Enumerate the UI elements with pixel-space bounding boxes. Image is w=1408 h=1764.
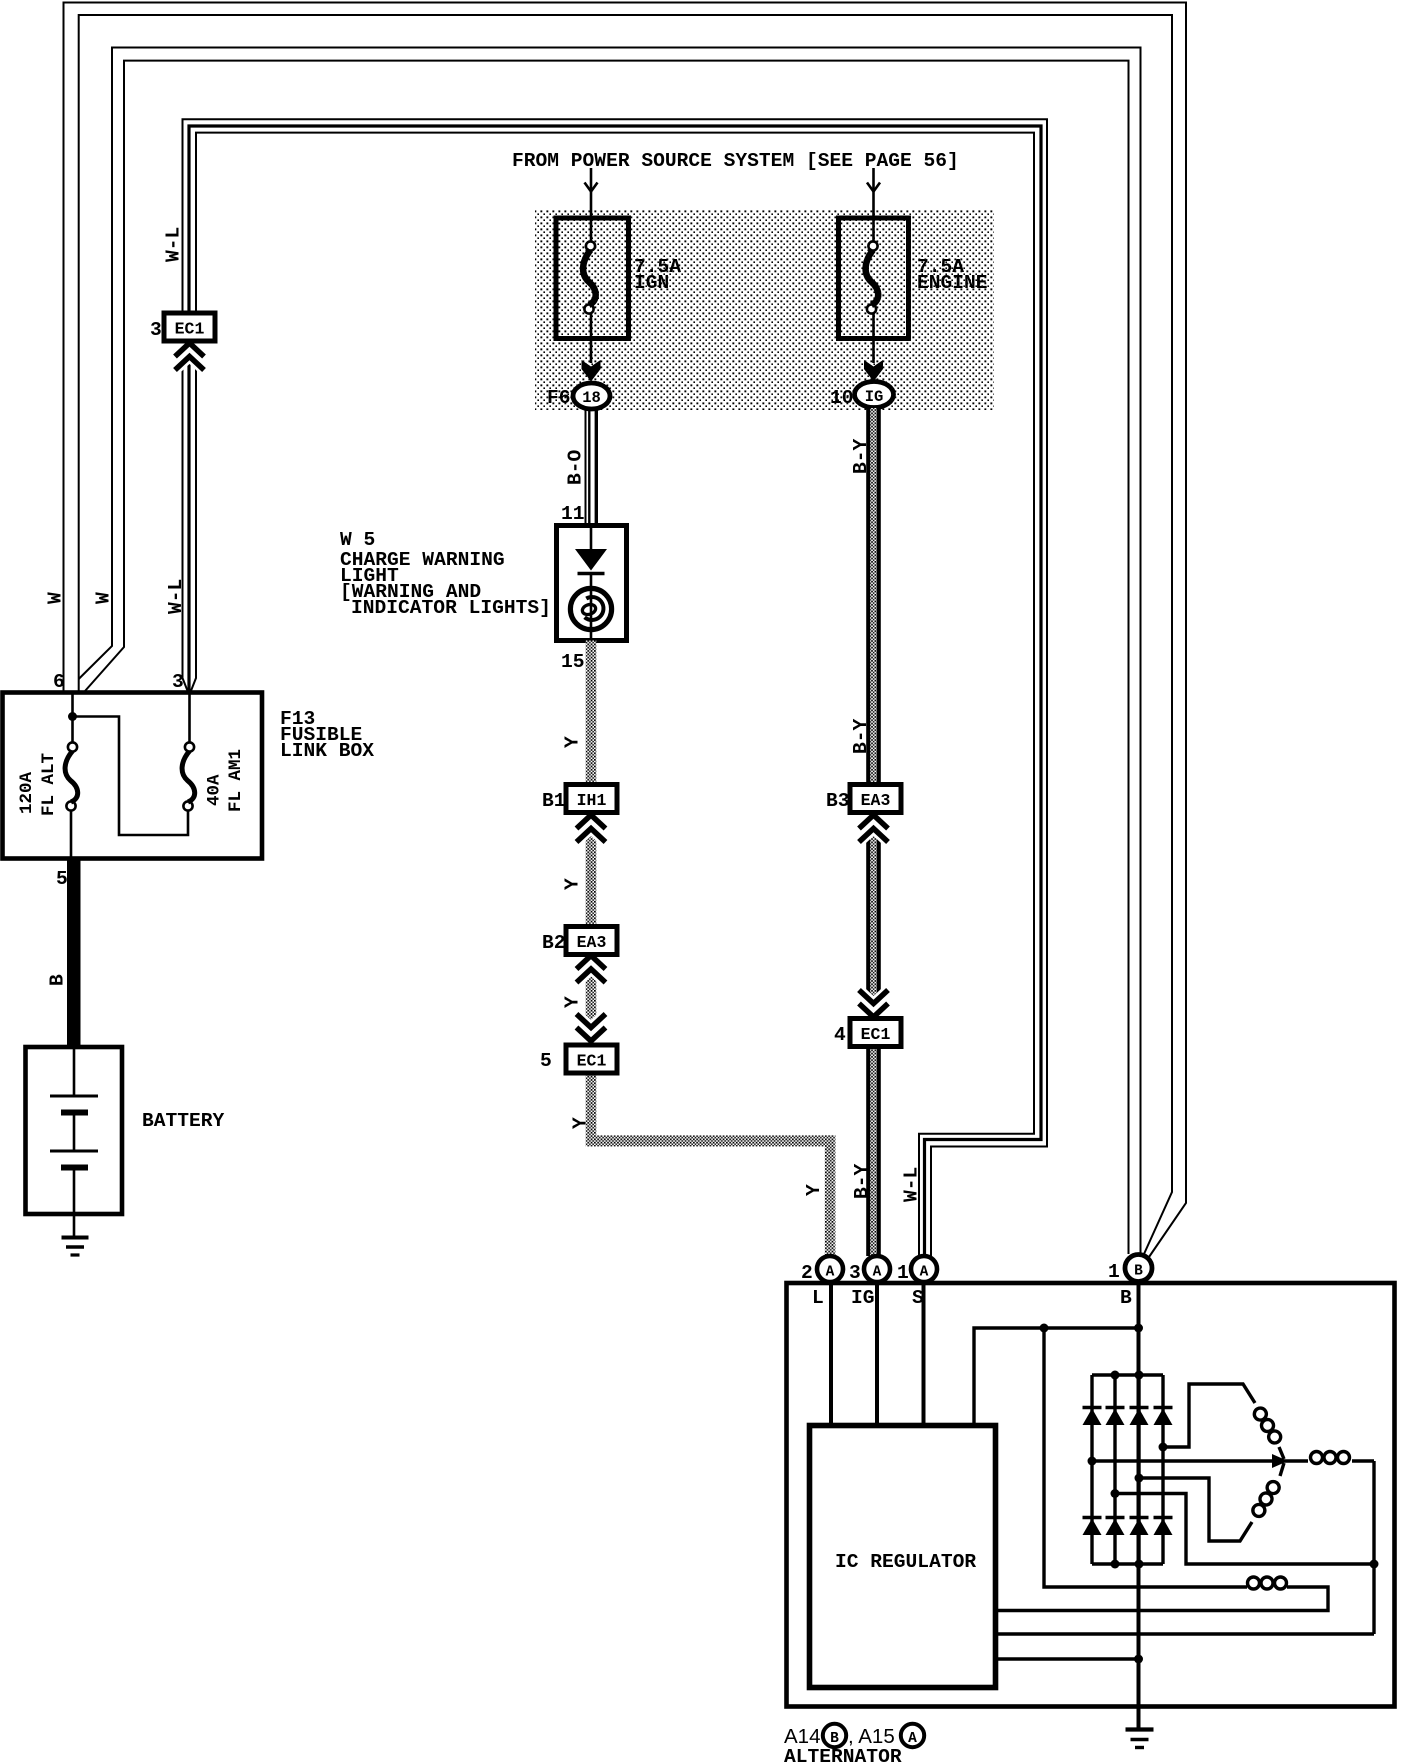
- wire B-Y: junction B3 to connector EC1 pin 4: [870, 813, 877, 1045]
- fusible link 40A FL AM1: [188, 694, 191, 742]
- junction connector B3 EA3: [850, 785, 901, 813]
- wire IC regulator ground stub: [996, 1657, 1139, 1660]
- junction col4 phase tap: [1159, 1443, 1168, 1452]
- junction connector B2 EA3: [566, 927, 617, 955]
- wire S into IC regulator: [922, 1282, 926, 1426]
- diode D7 (negative rectifier): [1130, 1516, 1149, 1520]
- svg-text:W: W: [93, 592, 115, 604]
- diode D8 (negative rectifier): [1154, 1516, 1173, 1520]
- connector arrows into EC1 pin 3: [175, 343, 204, 357]
- wire L into IC regulator: [829, 1282, 833, 1426]
- diode D6 (negative rectifier): [1106, 1516, 1125, 1520]
- ground (alternator): [1126, 1727, 1154, 1731]
- junction: B sense tap: [1134, 1324, 1143, 1333]
- svg-text:W-L: W-L: [165, 579, 187, 614]
- svg-text:FL AM1: FL AM1: [226, 749, 246, 812]
- svg-text:A: A: [826, 1265, 835, 1281]
- svg-text:120A: 120A: [17, 771, 37, 814]
- svg-text:EA3: EA3: [577, 933, 607, 952]
- svg-text:1: 1: [897, 1262, 909, 1284]
- wire ENGINE fuse to connector 10 IG: [872, 310, 875, 363]
- rectifier bottom bus: [1092, 1562, 1163, 1565]
- wire Y: warning light to junction B1: [586, 641, 597, 785]
- connector arrows into EC1 pin 5: [577, 1014, 606, 1028]
- svg-text:B: B: [830, 1731, 839, 1747]
- junction col3 phase tap: [1135, 1474, 1144, 1483]
- junction bottom bus col2: [1111, 1560, 1120, 1569]
- fusible link 120A FL ALT: [71, 694, 74, 742]
- connector arrows into B1: [577, 815, 606, 829]
- wire Y: junction B1 to junction B2: [586, 813, 597, 927]
- alternator box: [787, 1283, 1395, 1707]
- arrow from power source (right): [872, 168, 875, 191]
- wire B-Y: EC1 pin 4 to alternator terminal IG: [870, 1047, 877, 1256]
- wire B sense into IC regulator: [974, 1328, 1139, 1426]
- stator phase winding 1 (top): [1163, 1384, 1255, 1447]
- svg-text:L: L: [812, 1287, 824, 1309]
- junction top bus col3: [1135, 1371, 1144, 1380]
- fuse 7.5A ENGINE: [839, 218, 909, 339]
- connector arrows into B3: [859, 815, 888, 829]
- svg-text:5: 5: [540, 1050, 552, 1072]
- rectifier column 4: [1161, 1375, 1164, 1564]
- ground (battery): [62, 1236, 89, 1240]
- junction inside F13: [68, 712, 77, 721]
- wire B main: terminal B down to ground: [1137, 1281, 1141, 1729]
- svg-text:1: 1: [1108, 1261, 1120, 1283]
- terminal 2(A) / L: [817, 1256, 843, 1282]
- battery plate long 1: [50, 1095, 98, 1098]
- svg-text:ENGINE: ENGINE: [917, 272, 988, 294]
- svg-text:Y: Y: [562, 878, 584, 890]
- diode D3 (positive rectifier): [1130, 1406, 1149, 1410]
- svg-text:6: 6: [53, 671, 65, 693]
- shaded power-source block background: [535, 210, 994, 410]
- battery plate long 2: [50, 1150, 98, 1153]
- wire B-O bundle: F6 to warning light pin 11: [585, 409, 587, 524]
- svg-text:B: B: [47, 974, 69, 986]
- junction col2 phase tap: [1111, 1489, 1120, 1498]
- svg-text:3: 3: [849, 1262, 861, 1284]
- svg-text:IC REGULATOR: IC REGULATOR: [835, 1551, 976, 1573]
- rectifier column 3: [1137, 1375, 1140, 1564]
- diode D4 (positive rectifier): [1154, 1406, 1173, 1410]
- svg-text:18: 18: [582, 389, 601, 407]
- wire W-L bundle inner line to alternator S: [191, 133, 1035, 1258]
- wire Y: junction B2 to connector EC1 pin 5: [586, 953, 597, 1045]
- svg-text:B-Y: B-Y: [851, 1163, 873, 1199]
- IC regulator: [810, 1426, 996, 1688]
- svg-text:B: B: [1134, 1264, 1143, 1280]
- connector arrows into B2: [577, 956, 606, 970]
- junction bottom bus col3: [1135, 1560, 1144, 1569]
- svg-text:Y: Y: [803, 1184, 825, 1196]
- terminal 3(A) / IG: [864, 1256, 890, 1282]
- charge warning light W5: [557, 526, 627, 641]
- svg-text:EC1: EC1: [175, 320, 205, 339]
- junction top bus col2: [1111, 1371, 1120, 1380]
- wire W-L bundle outer line to alternator S: [183, 119, 1048, 1258]
- wire Y: EC1 pin 5 down and right to alternator terminal L: [586, 1072, 597, 1135]
- junction: rotor feed: [1040, 1324, 1049, 1333]
- wire IC regulator stub 2: [996, 1632, 1374, 1635]
- svg-text:BATTERY: BATTERY: [142, 1110, 225, 1132]
- svg-text:10: 10: [830, 387, 854, 409]
- arrowhead into connector F6: [582, 360, 601, 382]
- svg-text:Y: Y: [570, 1117, 592, 1129]
- diode (warning light internal): [575, 549, 607, 571]
- svg-text:W: W: [45, 592, 67, 604]
- rectifier column 2: [1113, 1375, 1116, 1564]
- terminal 1(B) / B: [1125, 1255, 1152, 1282]
- connector EC1 pin 3: [164, 313, 215, 341]
- svg-text:A: A: [873, 1265, 882, 1281]
- svg-text:EC1: EC1: [861, 1025, 891, 1044]
- svg-text:IG: IG: [851, 1287, 875, 1309]
- svg-text:B-Y: B-Y: [850, 718, 872, 754]
- svg-text:5: 5: [56, 868, 68, 890]
- wire W (battery feed 2) routed around page top to alternator B: [79, 15, 1172, 1254]
- connector EC1 pin 5: [566, 1045, 617, 1073]
- svg-text:W-L: W-L: [163, 227, 185, 262]
- svg-text:B: B: [1120, 1287, 1132, 1309]
- wire IGN fuse to connector F6: [590, 310, 593, 363]
- svg-text:2: 2: [801, 1262, 813, 1284]
- svg-text:FL ALT: FL ALT: [39, 753, 59, 816]
- svg-text:B2: B2: [542, 932, 566, 954]
- svg-text:Y: Y: [562, 736, 584, 748]
- battery plate short 2: [61, 1165, 88, 1171]
- svg-text:B-O: B-O: [565, 449, 587, 485]
- connector arrows into EC1 pin 4: [859, 990, 888, 1004]
- svg-text:ALTERNATOR: ALTERNATOR: [784, 1746, 902, 1764]
- wire from power source to ENGINE fuse: [872, 190, 875, 244]
- svg-text:W 5: W 5: [340, 529, 375, 551]
- svg-text:A14: A14: [784, 1725, 820, 1748]
- svg-text:EC1: EC1: [577, 1052, 607, 1071]
- connector EC1 pin 4: [850, 1019, 901, 1047]
- svg-text:F6: F6: [547, 387, 571, 409]
- svg-text:15: 15: [561, 651, 585, 673]
- svg-text:4: 4: [834, 1024, 846, 1046]
- svg-text:11: 11: [561, 503, 585, 525]
- svg-text:A: A: [908, 1731, 917, 1747]
- svg-text:A: A: [920, 1265, 929, 1281]
- arrowhead into connector 10 IG: [864, 360, 883, 382]
- stator neutral point: [1272, 1454, 1288, 1468]
- junction col1 phase tap: [1088, 1457, 1097, 1466]
- connector 10 (IG): [855, 382, 894, 408]
- battery plate short 1: [61, 1110, 88, 1116]
- wire B-Y: connector 10 to junction B3: [870, 408, 877, 785]
- junction phase/regulator: [1370, 1560, 1379, 1569]
- fusible link box F13: [3, 693, 263, 859]
- stator phase winding 3 (bottom): [1139, 1478, 1252, 1541]
- lamp (charge warning bulb): [570, 588, 611, 629]
- fuse 7.5A IGN: [556, 218, 629, 339]
- rectifier column 1: [1090, 1375, 1093, 1564]
- svg-text:EA3: EA3: [861, 791, 891, 810]
- wire W (battery feed 1) routed around page top to alternator B: [64, 3, 1187, 1258]
- diode D1 (positive rectifier): [1083, 1406, 1102, 1410]
- svg-text:B3: B3: [826, 790, 850, 812]
- junction connector B1 IH1: [566, 785, 617, 813]
- svg-text:3: 3: [150, 319, 162, 341]
- wire W-L main line to alternator S: [189, 126, 1041, 1258]
- svg-text:INDICATOR LIGHTS]: INDICATOR LIGHTS]: [351, 597, 551, 619]
- rectifier top bus: [1092, 1373, 1163, 1376]
- battery: [26, 1047, 123, 1214]
- svg-text:B1: B1: [542, 790, 566, 812]
- diode D2 (positive rectifier): [1106, 1406, 1125, 1410]
- svg-text:Y: Y: [562, 996, 584, 1008]
- stator phase winding 2 (middle): [1092, 1459, 1283, 1462]
- wire from power source to IGN fuse: [590, 190, 593, 244]
- svg-text:W-L: W-L: [901, 1167, 923, 1202]
- svg-text:, A15: , A15: [848, 1725, 895, 1748]
- svg-text:IH1: IH1: [577, 791, 607, 810]
- svg-text:B-Y: B-Y: [850, 438, 872, 474]
- wire W-L (fusible link feed 2) routed to alternator B: [85, 61, 1129, 1254]
- terminal 1(A) / S: [911, 1256, 937, 1282]
- svg-text:IGN: IGN: [634, 272, 669, 294]
- arrow from power source (left): [590, 168, 593, 191]
- svg-text:IG: IG: [865, 388, 884, 406]
- diode D5 (negative rectifier): [1083, 1516, 1102, 1520]
- wire W-L (fusible link feed 1) routed to alternator B: [79, 48, 1141, 1257]
- svg-text:3: 3: [172, 671, 184, 693]
- junction ground stub: [1134, 1655, 1143, 1664]
- svg-text:FROM POWER SOURCE SYSTEM [SEE: FROM POWER SOURCE SYSTEM [SEE PAGE 56]: [512, 150, 959, 172]
- connector F6 (18): [573, 383, 610, 409]
- svg-text:40A: 40A: [205, 774, 225, 806]
- phase return wire to IC regulator: [1115, 1494, 1374, 1565]
- svg-text:LINK BOX: LINK BOX: [280, 740, 374, 762]
- rotor field winding: [1044, 1328, 1247, 1587]
- internal wire: 120A link to 40A link: [73, 717, 189, 836]
- wire B: fusible link box to battery (heavy): [67, 858, 81, 1047]
- wire IG into IC regulator: [875, 1282, 879, 1426]
